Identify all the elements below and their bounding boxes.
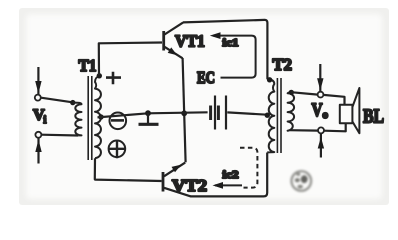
svg-text:ic2: ic2 bbox=[223, 169, 240, 181]
svg-text:VT2: VT2 bbox=[172, 176, 207, 195]
svg-text:EC: EC bbox=[197, 68, 215, 87]
svg-text:VT1: VT1 bbox=[175, 32, 205, 51]
svg-text:BL: BL bbox=[363, 106, 384, 128]
svg-text:i: i bbox=[44, 115, 47, 126]
svg-text:o: o bbox=[323, 109, 329, 121]
svg-text:T2: T2 bbox=[273, 55, 293, 74]
svg-text:V: V bbox=[312, 100, 323, 121]
svg-text:T1: T1 bbox=[79, 56, 97, 75]
svg-text:ic1: ic1 bbox=[223, 37, 239, 49]
